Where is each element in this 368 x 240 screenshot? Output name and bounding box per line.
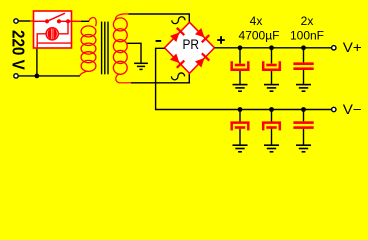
ground C4 <box>233 145 248 152</box>
switch S1 wire right <box>59 20 72 22</box>
svg-text:100nF: 100nF <box>290 29 324 43</box>
neon lamp right electrode (filled half lens) <box>53 28 57 39</box>
capacitor C4 bottom electrolytic <box>232 110 249 145</box>
label minus at bridge <box>156 40 162 42</box>
red lead out of box right <box>72 20 82 22</box>
transformer T1 core <box>102 22 108 75</box>
capacitor C3 top film 100nF <box>293 48 313 84</box>
ground C1 <box>233 85 248 92</box>
transformer T1 primary top tail <box>89 18 96 27</box>
svg-text:PR: PR <box>183 37 200 52</box>
ground C3 <box>296 85 311 92</box>
wire terminal N to transformer primary bottom <box>19 75 80 77</box>
wire V- route from bridge <box>156 48 332 109</box>
transformer T1 secondary top tail <box>116 14 129 20</box>
wire terminal L to switch box <box>19 20 30 22</box>
junction dot switch output <box>66 19 70 23</box>
wire box to transformer <box>81 20 89 22</box>
wire lamp left <box>37 34 46 48</box>
ground C2 <box>264 85 279 92</box>
terminal V- <box>332 107 336 111</box>
diode D1 (left vertex to top vertex) <box>169 27 185 43</box>
ground C6 <box>296 145 311 152</box>
capacitor C2 top electrolytic <box>263 48 280 84</box>
svg-text:V+: V+ <box>343 40 362 55</box>
transformer T1 secondary bottom tail <box>116 74 131 83</box>
svg-text:220 V: 220 V <box>8 30 27 70</box>
transformer T1 secondary winding <box>113 18 127 74</box>
svg-text:4x: 4x <box>250 14 263 28</box>
switch S1 pole dot left <box>45 19 49 23</box>
diode D3 (left vertex to bottom vertex) <box>169 53 185 69</box>
wire junction down to lamp <box>59 21 69 34</box>
wire secondary bottom to bridge <box>131 73 190 83</box>
AC sine symbol bottom <box>171 73 184 80</box>
ground C5 <box>264 145 279 152</box>
switch S1 pole dot right <box>57 19 61 23</box>
junction dots V- rail <box>238 107 243 112</box>
diode D4 (bottom vertex to right vertex) <box>194 52 210 68</box>
neon lamp center line <box>51 27 53 40</box>
AC sine symbol top <box>172 17 185 24</box>
switch S1 wire left <box>34 20 47 22</box>
svg-text:V−: V− <box>343 102 362 117</box>
bridge rectifier PR diamond <box>165 22 215 73</box>
ground center tap <box>134 63 148 69</box>
wire secondary center tap <box>127 43 141 62</box>
wire secondary top to bridge <box>129 14 190 23</box>
label plus at bridge <box>217 36 225 44</box>
svg-text:4700µF: 4700µF <box>239 29 280 43</box>
neon lamp left electrode (filled half lens) <box>48 28 52 39</box>
neon lamp circle <box>46 28 58 40</box>
red lead into box <box>30 20 35 22</box>
junction dots V+ rail <box>238 45 243 50</box>
switch/lamp box outline <box>34 11 72 48</box>
wire V+ rail <box>215 47 333 49</box>
svg-text:2x: 2x <box>301 14 314 28</box>
wire box bottom exit down to neutral <box>36 49 38 76</box>
junction dot neutral <box>35 74 40 79</box>
wire lamp bottom to box right edge <box>37 42 71 44</box>
terminal N (bottom-left) <box>14 74 18 78</box>
terminal V+ <box>332 46 336 50</box>
diode D2 (top vertex to right vertex) <box>194 27 210 43</box>
capacitor C6 bottom film 100nF <box>293 110 313 145</box>
switch S1 lever <box>47 13 65 21</box>
capacitor C1 top electrolytic <box>232 48 249 84</box>
capacitor C5 bottom electrolytic <box>263 110 280 145</box>
transformer T1 primary winding <box>81 26 96 72</box>
terminal L (top-left) <box>14 19 18 23</box>
transformer T1 primary bottom tail <box>80 71 88 76</box>
